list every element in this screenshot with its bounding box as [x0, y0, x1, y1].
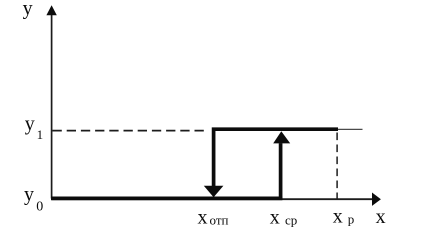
y-axis [51, 10, 53, 199]
svg-text:y: y [25, 113, 35, 135]
svg-text:1: 1 [37, 127, 44, 142]
svg-text:x: x [270, 207, 280, 229]
dashed horizontal at y1 level [53, 130, 209, 132]
x-axis [52, 198, 373, 200]
up branch vertical [279, 143, 283, 198]
x-axis arrowhead [372, 193, 381, 206]
svg-text:отп: отп [210, 213, 229, 228]
thick y0 segment [51, 197, 282, 201]
svg-text:ср: ср [285, 213, 297, 228]
down arrowhead [204, 186, 224, 198]
svg-text:x: x [333, 205, 343, 227]
svg-text:y: y [24, 184, 34, 206]
svg-text:x: x [376, 206, 386, 228]
thick y1 segment + down branch [214, 129, 338, 186]
up arrowhead [273, 131, 290, 143]
y-axis arrowhead [46, 5, 56, 15]
svg-text:y: y [23, 0, 33, 20]
thin y1 extension line [338, 128, 363, 130]
dashed vertical at x_p [336, 133, 338, 199]
svg-text:р: р [348, 212, 355, 227]
svg-text:x: x [198, 207, 208, 229]
svg-text:0: 0 [36, 200, 43, 215]
